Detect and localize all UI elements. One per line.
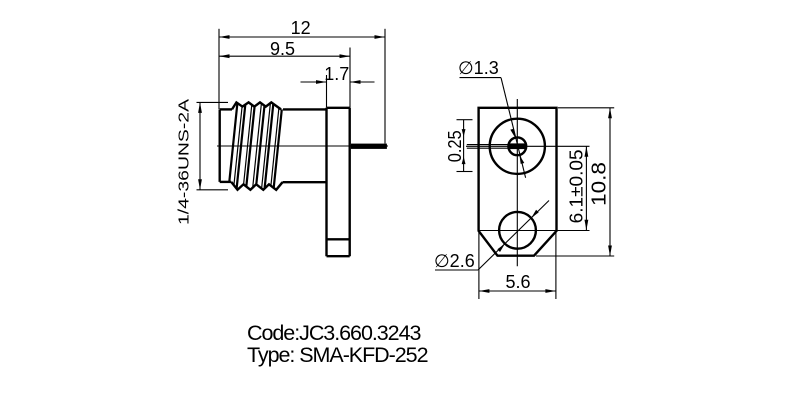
svg-text:∅2.6: ∅2.6 (434, 251, 475, 271)
svg-text:6.1±0.05: 6.1±0.05 (567, 149, 587, 223)
svg-text:0.25: 0.25 (445, 130, 465, 162)
svg-text:Type: SMA-KFD-252: Type: SMA-KFD-252 (247, 343, 428, 367)
svg-text:9.5: 9.5 (270, 39, 295, 59)
svg-text:12: 12 (291, 18, 311, 38)
svg-text:10.8: 10.8 (589, 162, 611, 206)
svg-text:5.6: 5.6 (505, 272, 530, 292)
svg-text:1/4-36UNS-2A: 1/4-36UNS-2A (176, 99, 193, 225)
svg-text:1.7: 1.7 (324, 64, 349, 84)
svg-text:Code:JC3.660.3243: Code:JC3.660.3243 (247, 321, 421, 345)
svg-text:∅1.3: ∅1.3 (458, 58, 499, 78)
